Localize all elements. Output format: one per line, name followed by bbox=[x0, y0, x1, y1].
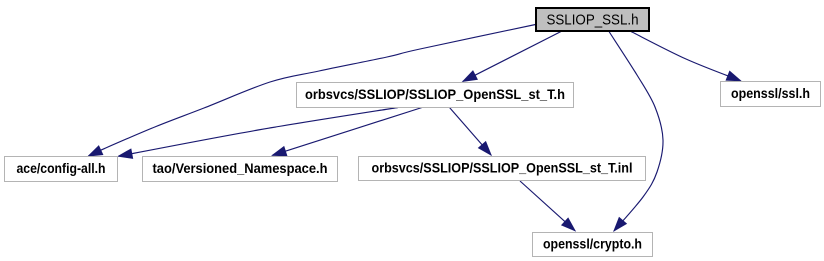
edge SSLIOP_SSL.h -> openssl/ssl.h bbox=[631, 32, 741, 81]
node orbsvcs/SSLIOP/SSLIOP_OpenSSL_st_T.inl bbox=[359, 157, 646, 181]
edge orbsvcs/SSLIOP/SSLIOP_OpenSSL_st_T.h -> orbsvcs/SSLIOP/SSLIOP_OpenSSL_st_T.inl bbox=[450, 108, 492, 156]
svg-text:openssl/crypto.h: openssl/crypto.h bbox=[543, 236, 642, 252]
node tao/Versioned_Namespace.h bbox=[143, 157, 338, 182]
svg-text:orbsvcs/SSLIOP/SSLIOP_OpenSSL_: orbsvcs/SSLIOP/SSLIOP_OpenSSL_st_T.h bbox=[305, 86, 565, 102]
node orbsvcs/SSLIOP/SSLIOP_OpenSSL_st_T.h bbox=[297, 83, 574, 108]
node openssl/crypto.h bbox=[533, 233, 653, 257]
edge orbsvcs/SSLIOP/SSLIOP_OpenSSL_st_T.h -> tao/Versioned_Namespace.h bbox=[273, 108, 423, 156]
edge SSLIOP_SSL.h -> orbsvcs/SSLIOP/SSLIOP_OpenSSL_st_T.h bbox=[463, 32, 561, 82]
svg-text:tao/Versioned_Namespace.h: tao/Versioned_Namespace.h bbox=[153, 160, 328, 176]
edge SSLIOP_SSL.h -> ace/config-all.h bbox=[89, 25, 536, 157]
svg-text:orbsvcs/SSLIOP/SSLIOP_OpenSSL_: orbsvcs/SSLIOP/SSLIOP_OpenSSL_st_T.inl bbox=[372, 160, 633, 176]
node openssl/ssl.h bbox=[721, 82, 821, 107]
svg-text:SSLIOP_SSL.h: SSLIOP_SSL.h bbox=[547, 13, 639, 29]
edge orbsvcs/SSLIOP/SSLIOP_OpenSSL_st_T.h -> ace/config-all.h bbox=[119, 108, 399, 159]
svg-text:ace/config-all.h: ace/config-all.h bbox=[17, 160, 106, 176]
node SSLIOP_SSL.h bbox=[536, 8, 649, 31]
node ace/config-all.h bbox=[5, 157, 118, 182]
edge orbsvcs/SSLIOP/SSLIOP_OpenSSL_st_T.inl -> openssl/crypto.h bbox=[520, 181, 575, 231]
edge SSLIOP_SSL.h -> openssl/crypto.h bbox=[609, 32, 663, 231]
svg-text:openssl/ssl.h: openssl/ssl.h bbox=[731, 85, 810, 101]
